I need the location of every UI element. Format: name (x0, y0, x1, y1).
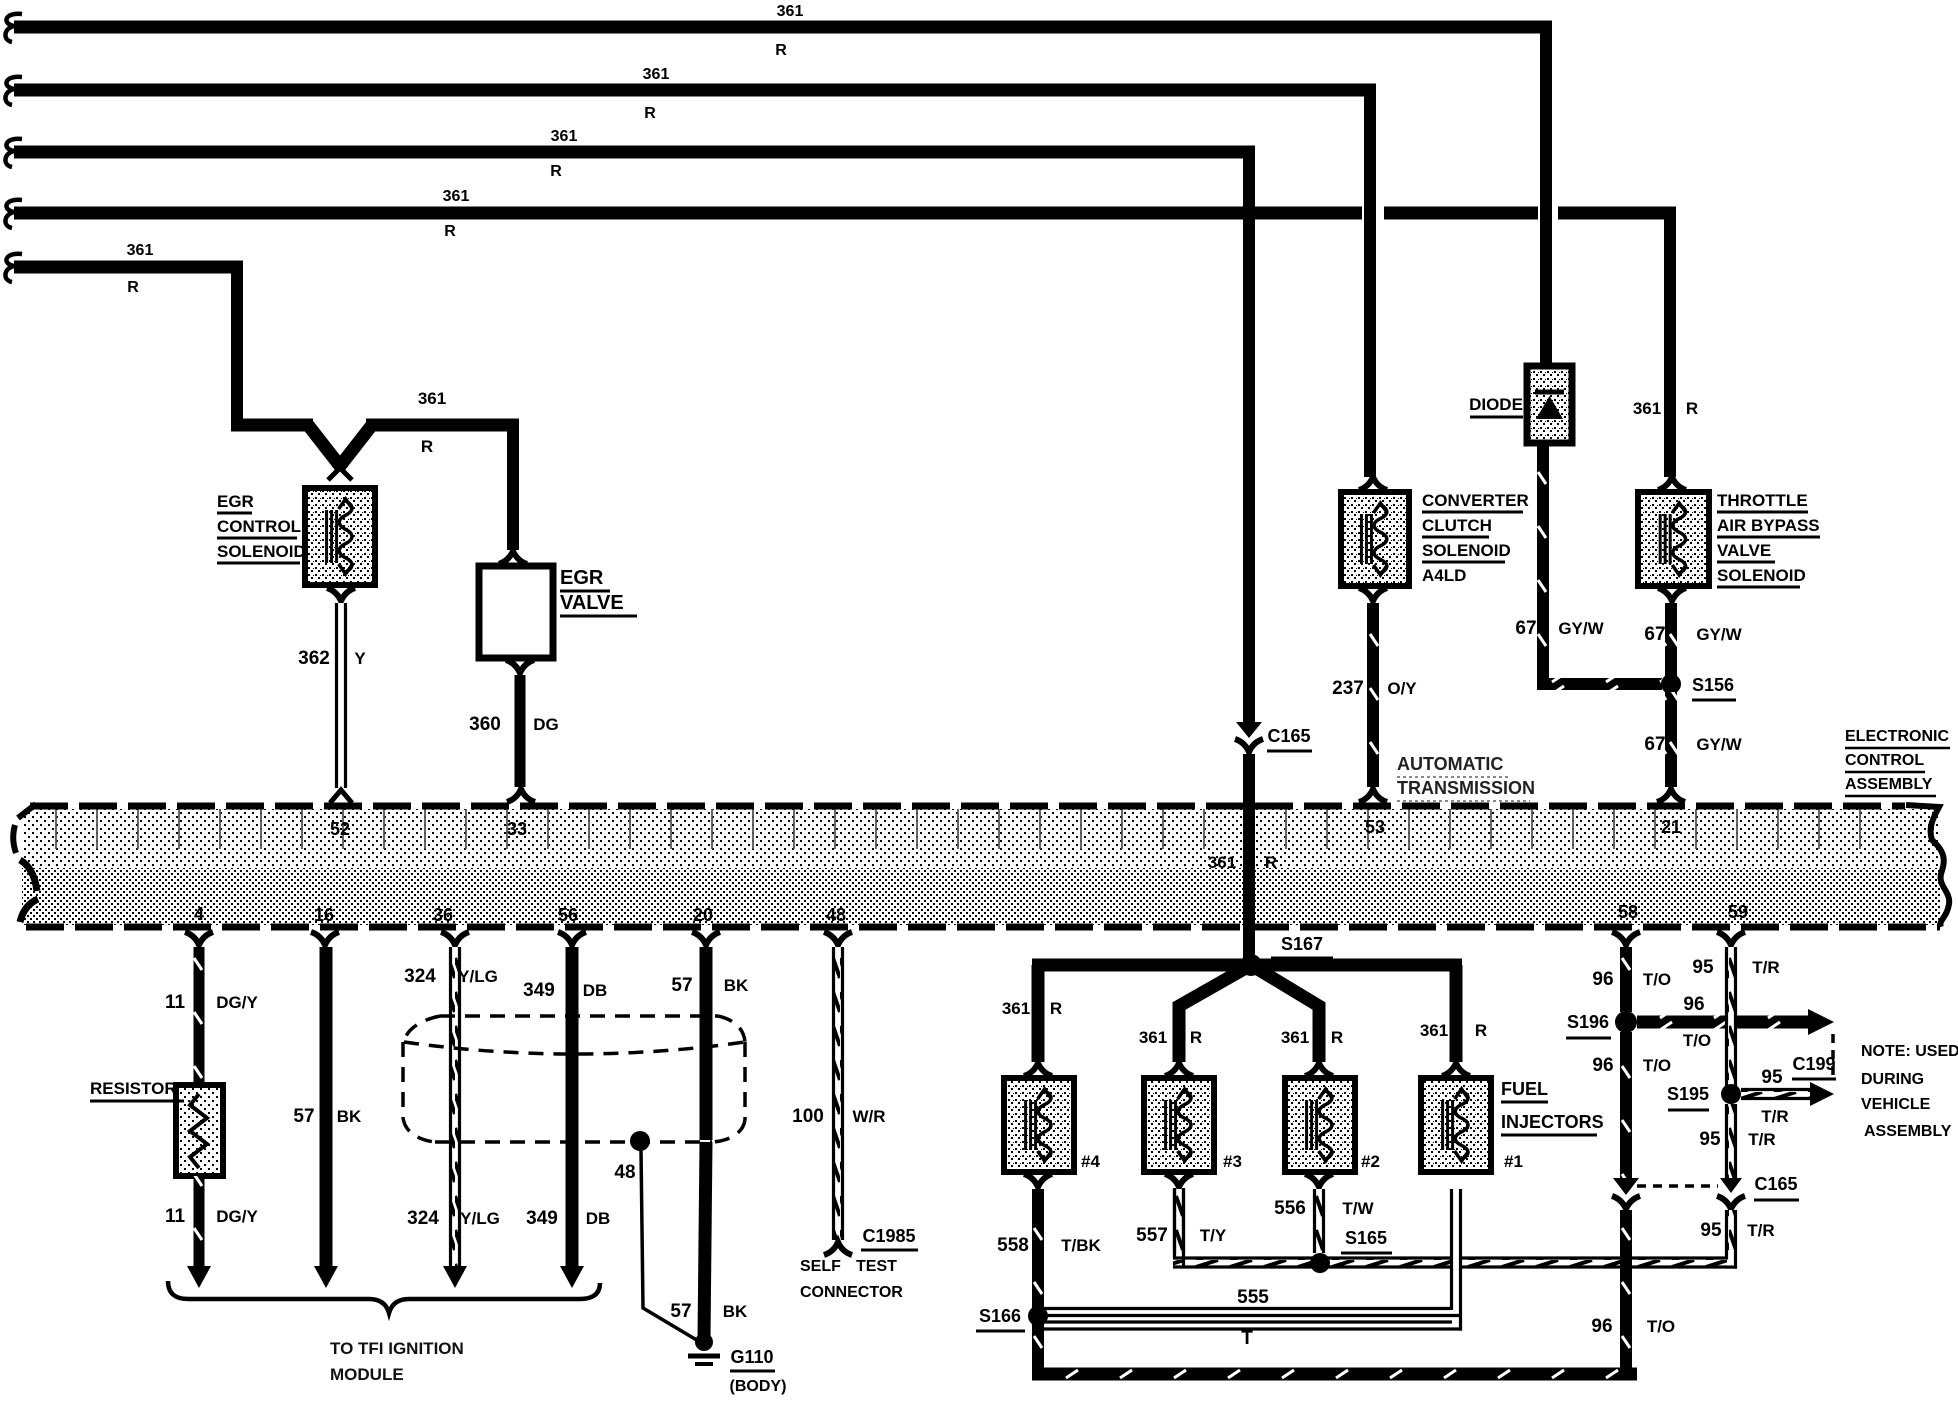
label 361 R at injector 2 (1281, 1028, 1343, 1047)
svg-text:CLUTCH: CLUTCH (1422, 516, 1492, 535)
wire 361 R (C165 to S167) (1243, 754, 1255, 960)
svg-text:96: 96 (1592, 1055, 1613, 1076)
svg-text:96: 96 (1592, 969, 1613, 990)
svg-text:CONVERTER: CONVERTER (1422, 491, 1529, 510)
wire 324 Y/LG (pin 36 to TFI) (404, 932, 500, 1288)
svg-text:INJECTORS: INJECTORS (1501, 1112, 1604, 1132)
splice S156 (1661, 674, 1736, 700)
svg-text:MODULE: MODULE (330, 1365, 404, 1384)
label SELF TEST CONNECTOR (800, 1258, 903, 1301)
wire 95 T/R arrow C199 (1741, 1054, 1836, 1126)
svg-text:BK: BK (337, 1107, 362, 1126)
connector C165 on wire 361 (1235, 722, 1312, 752)
svg-text:361: 361 (777, 3, 804, 20)
svg-text:AUTOMATIC: AUTOMATIC (1397, 754, 1503, 774)
svg-text:361: 361 (1002, 999, 1030, 1018)
svg-text:#1: #1 (1504, 1152, 1523, 1171)
wire 11 DG/Y (pin 4 to resistor) (165, 932, 258, 1085)
svg-text:20: 20 (693, 905, 713, 925)
svg-text:Y: Y (354, 649, 366, 668)
EGR control solenoid (305, 488, 375, 585)
splice S167 (1240, 934, 1333, 976)
svg-text:R: R (1050, 999, 1062, 1018)
EGR valve (479, 551, 553, 658)
label DIODE (1469, 395, 1523, 417)
wire 361 bus-2 (to converter clutch solenoid) (5, 66, 1376, 477)
svg-text:R: R (1686, 399, 1698, 418)
pin 21 (1661, 817, 1681, 837)
ECA connector band (13, 804, 1949, 927)
connector C165 dashed line (1637, 1174, 1799, 1200)
pin 36 (433, 905, 453, 925)
svg-text:T/R: T/R (1761, 1107, 1788, 1126)
svg-text:S167: S167 (1281, 934, 1323, 954)
pin 56 (558, 905, 578, 925)
svg-text:R: R (644, 105, 656, 122)
splice S166 (976, 1306, 1048, 1331)
label FUEL INJECTORS (1501, 1079, 1604, 1135)
wire 67 GY/W (S156 to pin 21) (1644, 692, 1742, 802)
wire 555 / S165 horizontal run (1173, 1188, 1727, 1269)
svg-text:GY/W: GY/W (1696, 735, 1742, 754)
svg-text:36: 36 (433, 905, 453, 925)
svg-text:360: 360 (469, 714, 501, 735)
pin 59 (1728, 902, 1748, 922)
svg-text:VALVE: VALVE (1717, 541, 1771, 560)
svg-text:96: 96 (1683, 994, 1704, 1015)
label EGR CONTROL SOLENOID (217, 492, 306, 563)
svg-text:SOLENOID: SOLENOID (1717, 566, 1806, 585)
svg-text:361: 361 (1208, 853, 1236, 872)
svg-text:59: 59 (1728, 902, 1748, 922)
svg-text:T: T (1241, 1328, 1253, 1349)
wire 11 DG/Y (resistor to TFI) (165, 1176, 258, 1288)
svg-text:58: 58 (1618, 902, 1638, 922)
svg-text:T/W: T/W (1342, 1199, 1374, 1218)
svg-text:SOLENOID: SOLENOID (1422, 541, 1511, 560)
svg-text:100: 100 (792, 1106, 824, 1127)
pin 16 (314, 905, 334, 925)
svg-text:EGR: EGR (217, 492, 254, 511)
svg-text:95: 95 (1761, 1067, 1783, 1088)
svg-text:361: 361 (1420, 1021, 1448, 1040)
svg-text:96: 96 (1591, 1316, 1612, 1337)
svg-text:RESISTOR: RESISTOR (90, 1079, 177, 1098)
svg-text:67: 67 (1515, 618, 1536, 639)
wire 96 T/O (C165 to bottom) (1620, 1210, 1632, 1374)
wire 361 bus-1 (to diode) (5, 3, 1552, 368)
shield loop (dashed) (403, 1016, 745, 1142)
svg-text:FUEL: FUEL (1501, 1079, 1548, 1099)
svg-text:CONTROL: CONTROL (217, 517, 301, 536)
svg-text:16: 16 (314, 905, 334, 925)
svg-text:VEHICLE: VEHICLE (1861, 1096, 1931, 1113)
svg-text:57: 57 (670, 1301, 691, 1322)
svg-text:95: 95 (1692, 957, 1714, 978)
svg-text:52: 52 (330, 819, 350, 839)
svg-text:TEST: TEST (856, 1258, 897, 1275)
svg-text:A4LD: A4LD (1422, 566, 1466, 585)
label NOTE USED DURING VEHICLE ASSEMBLY (1861, 1043, 1958, 1140)
pin 53 (1365, 817, 1385, 837)
svg-text:W/R: W/R (852, 1107, 885, 1126)
wire 100 W/R (pin 48 to C1985) (792, 932, 885, 1255)
svg-text:95: 95 (1700, 1220, 1722, 1241)
label EGR VALVE (560, 567, 637, 616)
svg-text:DG/Y: DG/Y (216, 1207, 258, 1226)
label 361 R at injector 4 (1002, 999, 1062, 1018)
svg-text:ASSEMBLY: ASSEMBLY (1845, 776, 1933, 793)
svg-text:S196: S196 (1567, 1012, 1609, 1032)
svg-text:R: R (550, 163, 562, 180)
svg-text:GY/W: GY/W (1696, 625, 1742, 644)
svg-text:ELECTRONIC: ELECTRONIC (1845, 728, 1949, 745)
connector C165 arrows on 96 (1612, 1178, 1640, 1209)
pin 48 (826, 905, 846, 925)
svg-text:361: 361 (1281, 1028, 1309, 1047)
label 361 R at injector 3 (1139, 1028, 1202, 1047)
svg-text:C199: C199 (1792, 1054, 1835, 1074)
dashed link between note arrows (1831, 1034, 1835, 1082)
svg-text:324: 324 (404, 966, 436, 987)
svg-text:557: 557 (1136, 1225, 1168, 1246)
svg-text:T/R: T/R (1747, 1221, 1774, 1240)
wire 67 GY/W (TAB solenoid to S156) (1644, 588, 1742, 678)
label 361 R inside band (1208, 853, 1277, 872)
svg-text:T/O: T/O (1683, 1031, 1711, 1050)
svg-text:T/Y: T/Y (1200, 1226, 1227, 1245)
wire from injector 1 down (1450, 1189, 1462, 1331)
svg-text:361: 361 (1139, 1028, 1167, 1047)
svg-text:T/R: T/R (1752, 958, 1779, 977)
wire 361 bus-5 (to EGR solenoid / EGR valve) (5, 242, 519, 550)
wire 95 T/R (C165 to S165 run) (1700, 1210, 1774, 1269)
svg-text:(BODY): (BODY) (730, 1378, 787, 1395)
svg-text:T/O: T/O (1643, 1056, 1671, 1075)
svg-text:T/R: T/R (1748, 1130, 1775, 1149)
svg-text:SELF: SELF (800, 1258, 841, 1275)
svg-text:361: 361 (127, 242, 154, 259)
wire 556 T/W (injector 2 to S165) (1274, 1174, 1374, 1253)
svg-text:S166: S166 (979, 1306, 1021, 1326)
svg-text:T/BK: T/BK (1061, 1236, 1101, 1255)
wire 557 T/Y (injector 3 elbow) (1136, 1174, 1227, 1254)
svg-text:C1985: C1985 (862, 1226, 915, 1246)
wire 57 BK (pin 20 to G110) (671, 932, 749, 1140)
converter clutch solenoid (1341, 477, 1409, 586)
pin 20 (693, 905, 713, 925)
wire 96 T/O (S196 down to C165) (1592, 1032, 1671, 1180)
svg-text:THROTTLE: THROTTLE (1717, 491, 1808, 510)
svg-text:555: 555 (1237, 1287, 1269, 1308)
svg-text:67: 67 (1644, 624, 1665, 645)
wire 349 DB (pin 56 to TFI) (523, 932, 610, 1288)
node 48 (614, 1131, 650, 1183)
wire 57 BK (below shield to G110) (670, 1142, 748, 1338)
svg-text:95: 95 (1699, 1129, 1721, 1150)
pin 52 (330, 819, 350, 839)
wire 361 bus-4 (to throttle air bypass solenoid) (5, 188, 1676, 477)
svg-text:DG: DG (533, 715, 559, 734)
svg-text:CONTROL: CONTROL (1845, 752, 1924, 769)
svg-text:O/Y: O/Y (1387, 679, 1417, 698)
svg-text:361: 361 (418, 389, 446, 408)
svg-text:DB: DB (583, 981, 608, 1000)
svg-text:CONNECTOR: CONNECTOR (800, 1284, 903, 1301)
connector C165 arrows on 95 (1717, 1178, 1745, 1209)
wire 96 T/O bottom return (1032, 1316, 1675, 1381)
svg-text:57: 57 (671, 975, 692, 996)
wire 95 T/R (S195 to C165) (1699, 1104, 1775, 1180)
svg-text:57: 57 (293, 1106, 314, 1127)
svg-text:349: 349 (526, 1208, 558, 1229)
svg-text:33: 33 (507, 819, 527, 839)
svg-text:361: 361 (443, 188, 470, 205)
svg-text:48: 48 (826, 905, 846, 925)
ground G110 (BODY) (688, 1333, 786, 1395)
wire 361 R injector bus (1032, 965, 1462, 1062)
svg-text:DIODE: DIODE (1469, 395, 1523, 414)
label ELECTRONIC CONTROL ASSEMBLY (1845, 728, 1950, 796)
splice S196 (1566, 1011, 1637, 1038)
wire 96 T/O (pin 58 to S196) (1592, 932, 1671, 1012)
wire 67 GY/W (diode to S156) (1515, 443, 1662, 690)
wire T (S166 run) (1044, 1322, 1462, 1349)
svg-text:Y/LG: Y/LG (458, 967, 498, 986)
svg-text:56: 56 (558, 905, 578, 925)
svg-text:ASSEMBLY: ASSEMBLY (1864, 1123, 1952, 1140)
svg-text:556: 556 (1274, 1198, 1306, 1219)
svg-text:R: R (1265, 853, 1277, 872)
svg-text:361: 361 (551, 128, 578, 145)
wire 95 T/R (pin 59 to S195) (1692, 932, 1779, 1086)
svg-text:558: 558 (997, 1235, 1029, 1256)
svg-text:67: 67 (1644, 734, 1665, 755)
svg-text:DG/Y: DG/Y (216, 993, 258, 1012)
svg-text:11: 11 (165, 992, 186, 1013)
svg-text:R: R (1190, 1028, 1202, 1047)
svg-text:11: 11 (165, 1206, 186, 1227)
svg-text:EGR: EGR (560, 567, 604, 589)
splice S195 (1667, 1084, 1741, 1110)
throttle air bypass valve solenoid (1638, 477, 1709, 586)
connector X at EGR solenoid feed (328, 450, 352, 480)
label 361 R at TAB wire (1633, 399, 1698, 418)
connector C1985 (861, 1226, 918, 1250)
label CONVERTER CLUTCH SOLENOID A4LD (1422, 491, 1529, 585)
wire 96 T/O arrow (note) (1637, 994, 1834, 1050)
wire 360 DG (EGR valve to pin 33) (469, 660, 559, 802)
svg-text:R: R (775, 42, 787, 59)
svg-text:BK: BK (724, 976, 749, 995)
svg-text:C165: C165 (1267, 726, 1310, 746)
svg-text:362: 362 (298, 648, 330, 669)
fuel injector #2 (1285, 1063, 1380, 1172)
svg-text:TO TFI IGNITION: TO TFI IGNITION (330, 1339, 464, 1358)
fuel injector #1 (1421, 1063, 1523, 1172)
svg-text:DB: DB (586, 1209, 611, 1228)
wire 361 bus-3 (to C165 / S167) (5, 128, 1255, 724)
svg-text:NOTE: USED: NOTE: USED (1861, 1043, 1958, 1060)
label 361 R at injector 1 (1420, 1021, 1487, 1040)
wire 237 O/Y (converter clutch to pin 53) (1332, 588, 1417, 802)
svg-text:Y/LG: Y/LG (460, 1209, 500, 1228)
svg-text:237: 237 (1332, 678, 1364, 699)
svg-text:T/O: T/O (1643, 970, 1671, 989)
splice S165 (1310, 1228, 1392, 1273)
svg-text:R: R (444, 223, 456, 240)
diode D1 (1527, 366, 1572, 443)
svg-text:4: 4 (194, 904, 204, 924)
wire 362 Y (EGR solenoid to pin 52) (298, 588, 366, 803)
wire 555 (S166 to injector 1) (1044, 1287, 1461, 1316)
svg-text:53: 53 (1365, 817, 1385, 837)
svg-text:349: 349 (523, 980, 555, 1001)
label TO TFI IGNITION MODULE (330, 1339, 464, 1384)
pin 33 (507, 819, 527, 839)
svg-text:DURING: DURING (1861, 1071, 1924, 1088)
label AUTOMATIC TRANSMISSION (1397, 754, 1535, 801)
resistor (176, 1085, 223, 1176)
svg-text:BK: BK (723, 1302, 748, 1321)
svg-text:#3: #3 (1223, 1152, 1242, 1171)
svg-text:R: R (1475, 1021, 1487, 1040)
svg-text:S195: S195 (1667, 1084, 1709, 1104)
label RESISTOR (90, 1079, 184, 1101)
svg-text:361: 361 (1633, 399, 1661, 418)
svg-text:T/O: T/O (1647, 1317, 1675, 1336)
fuel injector #3 (1144, 1063, 1242, 1172)
svg-text:TRANSMISSION: TRANSMISSION (1397, 778, 1535, 798)
svg-text:S156: S156 (1692, 675, 1734, 695)
wire 558 T/BK (injector 4 to S166) (997, 1174, 1101, 1310)
brace TO TFI IGNITION MODULE (168, 1281, 600, 1313)
svg-text:R: R (421, 437, 433, 456)
svg-text:324: 324 (407, 1208, 439, 1229)
pin 4 (194, 904, 204, 924)
svg-text:VALVE: VALVE (560, 592, 624, 614)
svg-text:GY/W: GY/W (1558, 619, 1604, 638)
svg-text:R: R (127, 279, 139, 296)
svg-text:#4: #4 (1081, 1152, 1100, 1171)
pin 58 (1618, 902, 1638, 922)
svg-text:361: 361 (643, 66, 670, 83)
wire 57 BK (pin 16 to TFI) (293, 932, 362, 1288)
svg-text:AIR BYPASS: AIR BYPASS (1717, 516, 1820, 535)
svg-text:#2: #2 (1361, 1152, 1380, 1171)
label THROTTLE AIR BYPASS VALVE SOLENOID (1717, 491, 1820, 587)
svg-text:21: 21 (1661, 817, 1681, 837)
svg-text:C165: C165 (1754, 1174, 1797, 1194)
svg-text:S165: S165 (1345, 1228, 1387, 1248)
svg-text:48: 48 (614, 1162, 635, 1183)
wire from node 48 to G110 (641, 1150, 700, 1342)
svg-text:G110: G110 (730, 1347, 773, 1367)
fuel injector #4 (1004, 1063, 1100, 1172)
svg-text:R: R (1331, 1028, 1343, 1047)
svg-text:SOLENOID: SOLENOID (217, 542, 306, 561)
